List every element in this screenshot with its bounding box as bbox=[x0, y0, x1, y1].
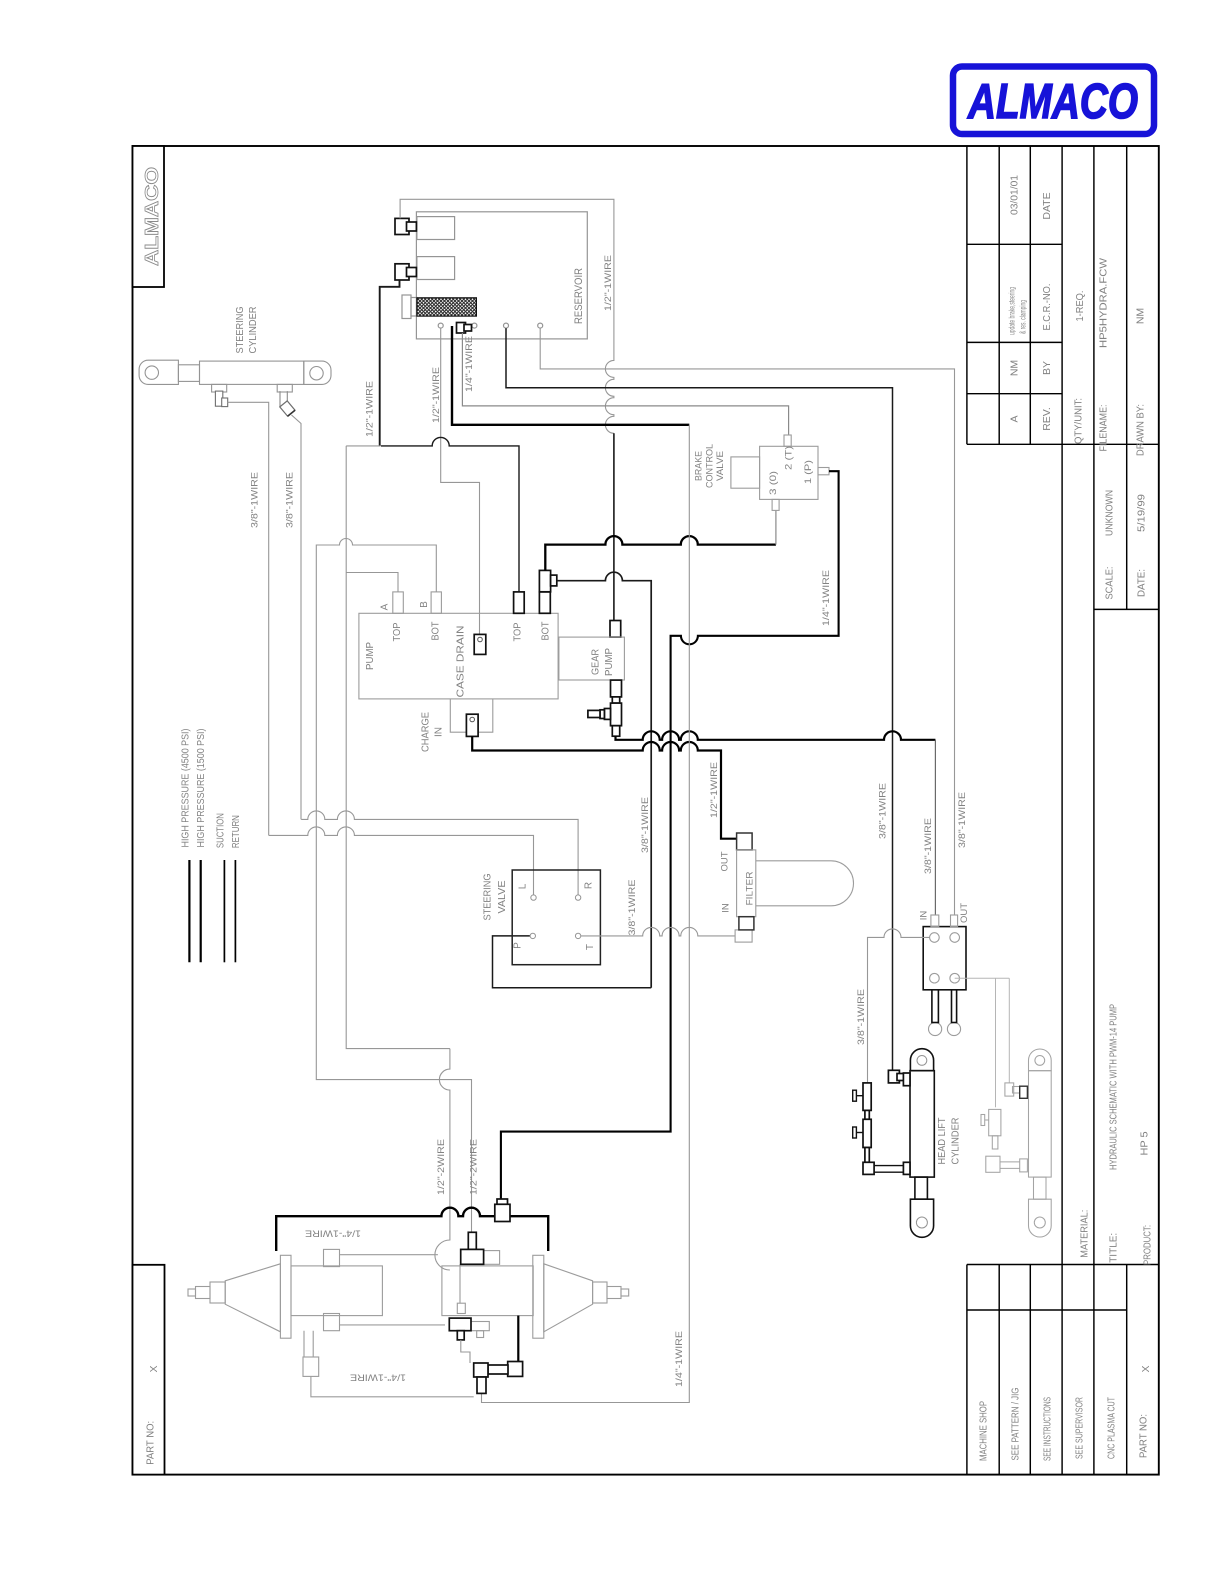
svg-text:HEAD LIFT: HEAD LIFT bbox=[937, 1118, 948, 1165]
svg-text:PUMP: PUMP bbox=[604, 648, 615, 676]
svg-text:3/8"-1WIRE: 3/8"-1WIRE bbox=[957, 792, 968, 848]
svg-text:A: A bbox=[380, 603, 391, 610]
svg-text:NM: NM bbox=[1009, 360, 1021, 376]
svg-text:NM: NM bbox=[1135, 308, 1147, 324]
svg-text:P: P bbox=[513, 942, 524, 949]
svg-text:IN: IN bbox=[721, 903, 732, 913]
svg-text:3/8"-1WIRE: 3/8"-1WIRE bbox=[856, 989, 867, 1045]
reservoir elbow2 drop to junction, thick bbox=[380, 280, 400, 446]
brake control valve bbox=[731, 457, 760, 488]
feed elbow on U line bbox=[495, 1199, 510, 1222]
T return wire to filter IN bbox=[581, 927, 735, 936]
svg-text:1/2"-2WIRE: 1/2"-2WIRE bbox=[436, 1139, 447, 1195]
gear out wire thick bbox=[616, 731, 936, 740]
reservoir loop wire 1/2-1WIRE bbox=[400, 199, 614, 433]
svg-text:1/2"-1WIRE: 1/2"-1WIRE bbox=[431, 367, 442, 423]
wire D: manifold to head lift valves bbox=[868, 929, 930, 1083]
loop continues black to gear pump bbox=[613, 433, 615, 620]
svg-text:ALMACO: ALMACO bbox=[141, 167, 162, 266]
svg-text:HYDRAULIC SCHEMATIC WITH PWM-1: HYDRAULIC SCHEMATIC WITH PWM-14 PUMP bbox=[1108, 1004, 1120, 1170]
big cylinder black fittings bbox=[461, 1232, 484, 1264]
right body bottom thick wire + elbow cluster bbox=[517, 1316, 519, 1366]
svg-text:OUT: OUT bbox=[720, 851, 731, 871]
svg-text:& res. clamping: & res. clamping bbox=[1019, 300, 1028, 334]
steering cylinder bbox=[139, 360, 331, 392]
head lift cylinder (black) bbox=[910, 1049, 934, 1238]
manifold IN/OUT block bbox=[923, 927, 966, 990]
svg-text:1/2"-1WIRE: 1/2"-1WIRE bbox=[709, 762, 720, 818]
svg-text:DATE:: DATE: bbox=[1136, 569, 1148, 597]
svg-text:3/8"-1WIRE: 3/8"-1WIRE bbox=[640, 797, 651, 853]
P feed into steering valve bbox=[493, 936, 652, 988]
svg-text:FILTER: FILTER bbox=[745, 871, 756, 905]
svg-text:SEE PATTERN / JIG: SEE PATTERN / JIG bbox=[1009, 1388, 1021, 1461]
svg-text:CYLINDER: CYLINDER bbox=[951, 1118, 962, 1165]
svg-text:SEE INSTRUCTIONS: SEE INSTRUCTIONS bbox=[1041, 1397, 1053, 1461]
svg-text:VALVE: VALVE bbox=[497, 880, 508, 913]
svg-text:PUMP: PUMP bbox=[365, 642, 376, 670]
charge wire thick bbox=[472, 736, 736, 838]
gear pump bbox=[610, 621, 621, 638]
svg-text:1/4"-1WIRE: 1/4"-1WIRE bbox=[350, 1372, 406, 1383]
svg-text:MATERIAL:: MATERIAL: bbox=[1079, 1210, 1091, 1258]
svg-text:E.C.R.-NO.: E.C.R.-NO. bbox=[1041, 284, 1053, 331]
svg-text:DATE: DATE bbox=[1041, 192, 1053, 219]
drawing frame bbox=[133, 146, 1159, 1475]
PART NO corner box bbox=[133, 1265, 165, 1475]
title block lines bbox=[967, 146, 1159, 1475]
svg-text:RESERVOIR: RESERVOIR bbox=[573, 268, 585, 324]
bottom tee black bbox=[449, 1318, 471, 1340]
svg-text:SEE SUPERVISOR: SEE SUPERVISOR bbox=[1073, 1397, 1085, 1459]
svg-text:OUT: OUT bbox=[959, 903, 970, 923]
junction left to x346 vertical bbox=[346, 446, 450, 1049]
svg-text:1/4"-1WIRE: 1/4"-1WIRE bbox=[821, 570, 832, 626]
case drain port bbox=[474, 634, 486, 654]
svg-text:3/8"-1WIRE: 3/8"-1WIRE bbox=[878, 783, 889, 839]
svg-text:BY: BY bbox=[1041, 361, 1053, 375]
svg-text:TOP: TOP bbox=[392, 622, 403, 641]
svg-text:5/19/99: 5/19/99 bbox=[1136, 494, 1148, 532]
svg-text:IN: IN bbox=[919, 911, 930, 921]
thick U line bbox=[276, 1208, 548, 1251]
svg-text:UNKNOWN: UNKNOWN bbox=[1104, 490, 1116, 536]
svg-text:03/01/01: 03/01/01 bbox=[1009, 175, 1021, 215]
svg-text:REV.: REV. bbox=[1041, 407, 1053, 431]
svg-text:1-REQ.: 1-REQ. bbox=[1074, 291, 1086, 322]
gray wire res elbow2 to brake valve port 2 bbox=[462, 333, 788, 435]
wire: pump port A up-and-left link bbox=[346, 573, 398, 592]
title block texts bbox=[978, 175, 1154, 1461]
wire P1: pump A line drop to big cylinder (1/2"-2WIRE) bbox=[435, 1049, 450, 1270]
svg-text:HIGH PRESSURE (4500 PSI): HIGH PRESSURE (4500 PSI) bbox=[181, 729, 192, 848]
svg-text:PRODUCT:: PRODUCT: bbox=[1142, 1225, 1154, 1265]
ALMACO corner box bbox=[133, 146, 165, 287]
filter bbox=[737, 833, 753, 850]
svg-text:L: L bbox=[518, 883, 529, 889]
svg-text:X: X bbox=[1140, 1365, 1152, 1372]
svg-text:R: R bbox=[584, 882, 595, 889]
reservoir port2 black elbow + thick wire to brake area bbox=[457, 323, 472, 334]
charge port bbox=[466, 714, 478, 736]
ALMACO logo (blue, horizontal, top right) bbox=[953, 67, 1154, 135]
wire: steering cylinder ports to steering valve L/R (3/8"-1WIRE pair) bbox=[228, 402, 578, 895]
svg-text:TITLE:: TITLE: bbox=[1108, 1233, 1120, 1263]
svg-text:ALMACO: ALMACO bbox=[967, 75, 1138, 129]
svg-text:B: B bbox=[419, 601, 430, 608]
port3 wire (black) to head lift via 892.5 bbox=[506, 328, 893, 1070]
svg-text:HP 5: HP 5 bbox=[1139, 1131, 1151, 1155]
svg-text:IN: IN bbox=[434, 727, 445, 737]
svg-text:HIGH PRESSURE (1500 PSI): HIGH PRESSURE (1500 PSI) bbox=[196, 729, 207, 848]
svg-text:PART NO:: PART NO: bbox=[145, 1421, 157, 1465]
svg-text:STEERING: STEERING bbox=[234, 307, 246, 354]
svg-text:CONTROL: CONTROL bbox=[705, 444, 716, 488]
svg-text:1/2"-2WIRE: 1/2"-2WIRE bbox=[469, 1139, 480, 1195]
wire P2: pump port B line to big cylinder tee (1/2"-2WIRE) bbox=[316, 539, 471, 1233]
svg-text:CASE DRAIN: CASE DRAIN bbox=[456, 626, 467, 698]
svg-text:A: A bbox=[1009, 415, 1021, 422]
port1 elbow fitting bbox=[215, 391, 227, 407]
svg-text:BOT: BOT bbox=[431, 622, 442, 641]
reservoir bbox=[402, 212, 587, 339]
svg-text:FILENAME:: FILENAME: bbox=[1098, 405, 1110, 452]
svg-text:3/8"-1WIRE: 3/8"-1WIRE bbox=[250, 472, 261, 528]
svg-text:1/4"-1WIRE: 1/4"-1WIRE bbox=[305, 1228, 361, 1239]
svg-text:1/4"-1WIRE: 1/4"-1WIRE bbox=[674, 1331, 685, 1387]
svg-text:CYLINDER: CYLINDER bbox=[247, 306, 259, 353]
svg-text:BOT: BOT bbox=[541, 622, 552, 641]
pump TOP/BOT ports (black) bbox=[514, 570, 557, 613]
svg-text:3 (0): 3 (0) bbox=[768, 471, 779, 495]
svg-text:BRAKE: BRAKE bbox=[694, 451, 705, 481]
svg-text:1/2"-1WIRE: 1/2"-1WIRE bbox=[365, 381, 376, 437]
svg-text:1 (P): 1 (P) bbox=[803, 460, 814, 484]
junction to pump TOP port bbox=[381, 437, 519, 592]
svg-text:1/2"-1WIRE: 1/2"-1WIRE bbox=[603, 255, 614, 311]
brake port1 thick wire down and to big-cyl feed bbox=[501, 471, 839, 1204]
reservoir top elbows (black) bbox=[395, 218, 416, 280]
svg-text:T: T bbox=[585, 944, 596, 950]
port2 diagonal fitting bbox=[280, 391, 287, 407]
svg-text:3/8"-1WIRE: 3/8"-1WIRE bbox=[285, 472, 296, 528]
ghost feed wires bbox=[955, 978, 1010, 1107]
svg-text:3/8"-1WIRE: 3/8"-1WIRE bbox=[923, 818, 934, 874]
port4 wire to manifold OUT bbox=[540, 328, 954, 915]
svg-text:update brake,steering: update brake,steering bbox=[1008, 287, 1017, 335]
pump BOT tee wires (thick) bbox=[545, 536, 776, 571]
svg-text:HP5HYDRA.FCW: HP5HYDRA.FCW bbox=[1098, 258, 1110, 348]
steering valve bbox=[512, 870, 600, 965]
svg-text:X: X bbox=[148, 1365, 160, 1372]
svg-text:CHARGE: CHARGE bbox=[421, 712, 432, 752]
legend HIGH PRESSURE / SUCTION / RETURN bbox=[181, 729, 242, 849]
big cylinder (bottom left, gray) bbox=[188, 1249, 629, 1338]
svg-text:STEERING: STEERING bbox=[483, 873, 494, 920]
svg-text:QTY/UNIT:: QTY/UNIT: bbox=[1073, 398, 1085, 444]
svg-text:2 (T): 2 (T) bbox=[784, 446, 795, 470]
svg-text:SCALE:: SCALE: bbox=[1104, 567, 1116, 600]
svg-text:TOP: TOP bbox=[513, 622, 524, 641]
ghost head lift cylinder (gray) bbox=[1005, 1049, 1051, 1237]
svg-text:PART NO:: PART NO: bbox=[1138, 1414, 1150, 1458]
port1 wire to case drain bbox=[441, 328, 480, 634]
svg-text:MACHINE SHOP: MACHINE SHOP bbox=[978, 1401, 990, 1461]
pump block bbox=[359, 592, 558, 732]
svg-text:DRAWN BY:: DRAWN BY: bbox=[1135, 404, 1147, 456]
left port loop gray bbox=[304, 1331, 313, 1357]
svg-text:VALVE: VALVE bbox=[715, 451, 726, 481]
svg-text:3/8"-1WIRE: 3/8"-1WIRE bbox=[627, 880, 638, 936]
svg-text:1/4"-1WIRE: 1/4"-1WIRE bbox=[464, 336, 475, 392]
wire: 1/4"-1WIRE return, brake line corner down to big cylinder bottom loop bbox=[482, 425, 690, 1403]
svg-text:RETURN: RETURN bbox=[231, 815, 242, 848]
legend sample lines bbox=[189, 860, 235, 962]
svg-text:SUCTION: SUCTION bbox=[216, 813, 227, 848]
svg-text:CNC PLASMA CUT: CNC PLASMA CUT bbox=[1105, 1397, 1117, 1459]
svg-text:GEAR: GEAR bbox=[591, 649, 602, 675]
